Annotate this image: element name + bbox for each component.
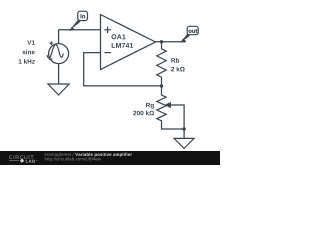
op-amp + input mark [104, 27, 111, 33]
V1 plus polarity mark [49, 41, 53, 45]
junction node (Rg bottom / wiper / ground) [182, 127, 185, 130]
V1 name label [27, 40, 35, 44]
footer credit line [45, 153, 74, 157]
wire V1 to op-amp + input [59, 29, 101, 31]
Rg value 200 kOhm [133, 111, 154, 116]
in flag box [78, 11, 88, 20]
out flag label [189, 29, 198, 33]
CircuitLab logo [9, 155, 33, 159]
out flag pole [181, 34, 190, 43]
junction node (Rb / Rg / feedback) [160, 84, 163, 87]
op-amp name OA1 [111, 34, 125, 39]
V1 minus polarity mark [49, 58, 53, 60]
ground (Rg) [174, 138, 194, 148]
voltage source V1 body [49, 44, 69, 64]
V1 sine squiggle [47, 45, 63, 59]
wire V1 top lead [58, 30, 60, 44]
out flag box [187, 26, 198, 34]
op-amp - input mark [104, 52, 111, 54]
potentiometer Rg body [157, 86, 184, 129]
op-amp part LM741 [112, 43, 134, 48]
Rb name [171, 58, 179, 63]
in flag pole [70, 20, 81, 30]
resistor Rb [157, 42, 166, 86]
wire to ground [183, 129, 185, 138]
footer bar [0, 151, 220, 165]
op-amp OA1 body [101, 15, 156, 70]
Rg wiper arrow [170, 105, 184, 129]
in flag label [81, 14, 85, 18]
ground (V1) [48, 84, 69, 95]
Rg name [146, 103, 154, 109]
wire V1 bottom lead [58, 64, 60, 84]
junction node (output / Rb top) [160, 40, 163, 43]
feedback wire (- input to Rb/Rg node) [84, 53, 162, 86]
V1 type label "sine" [22, 50, 34, 55]
V1 value label "1 kHz" [19, 59, 35, 64]
output wire [156, 41, 186, 43]
footer url line [45, 157, 101, 161]
Rb value 2 kOhm [171, 67, 185, 72]
